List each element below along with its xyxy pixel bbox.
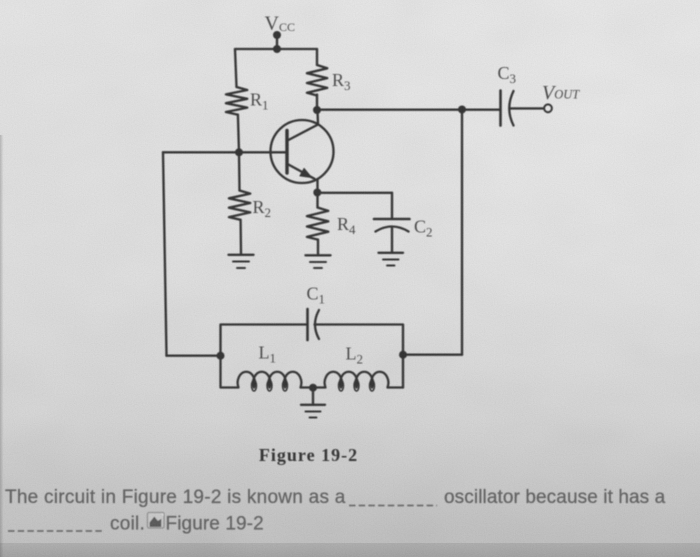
transistor Q1 base bar <box>285 131 288 174</box>
wire tank top left <box>221 325 307 356</box>
wire tank top right <box>315 325 404 355</box>
wire R2 bottom lead <box>239 220 242 255</box>
node Vcc-rail junction <box>273 45 281 53</box>
transistor Q1 emitter arrowhead <box>300 168 312 177</box>
wire tank right link <box>403 354 462 356</box>
question text line 1 <box>5 487 346 508</box>
label C2 <box>414 217 433 240</box>
wire R4 bottom lead <box>317 240 319 256</box>
caption Figure 19-2 <box>259 445 358 465</box>
wire output rail <box>317 109 500 111</box>
resistor R2 <box>229 191 250 220</box>
broken image icon <box>148 513 165 529</box>
wire R1-base lead <box>238 115 239 153</box>
wire tank right down <box>402 355 404 388</box>
Vcc label <box>265 13 295 35</box>
ground below R4 <box>306 254 331 256</box>
wire coil center ground stem <box>312 388 314 405</box>
label C1 <box>307 284 326 307</box>
node tank right junction <box>399 351 407 359</box>
capacitor C3 <box>499 91 502 126</box>
inductor L2 <box>313 372 403 388</box>
label R2 <box>253 197 272 220</box>
wire Vcc stem <box>276 35 278 49</box>
question text line 1b <box>444 487 666 508</box>
ground below coils <box>301 404 325 406</box>
capacitor C1 <box>306 309 309 340</box>
wire C2 top lead <box>391 193 393 219</box>
wire C3 to output terminal <box>510 107 544 109</box>
wire C2 bottom lead <box>391 228 393 253</box>
wire R3 top lead <box>316 49 318 65</box>
wire R1 top lead <box>235 49 237 87</box>
question text line 2b <box>166 514 264 535</box>
capacitor C2 <box>374 218 410 221</box>
wire base lead <box>163 151 287 153</box>
output terminal circle <box>544 104 552 112</box>
label R3 <box>332 70 351 93</box>
blank 2 dashed <box>8 530 104 532</box>
label R4 <box>337 214 356 237</box>
wire right outer vertical <box>461 110 463 355</box>
Vcc terminal dot <box>273 31 281 39</box>
node base junction <box>235 148 243 156</box>
wire left outer vertical <box>163 152 167 355</box>
wire tank left link <box>167 355 221 357</box>
ground below R2 <box>229 254 254 256</box>
transistor Q1 emitter stroke <box>288 164 315 179</box>
transistor Q1 collector stroke <box>288 110 319 141</box>
wire R3 bottom lead <box>316 95 318 111</box>
wire emitter to C2 <box>318 192 393 194</box>
label L2 <box>346 344 364 367</box>
node tank left junction <box>217 352 225 360</box>
resistor R1 <box>226 87 247 115</box>
ground below C2 <box>379 252 404 254</box>
question text line 2 <box>110 514 145 535</box>
wire emitter lead <box>316 179 318 193</box>
resistor R4 <box>307 208 328 240</box>
label L1 <box>259 343 277 366</box>
transistor Q1 circle <box>271 120 334 183</box>
resistor R3 <box>307 65 327 96</box>
wire top rail <box>235 48 317 50</box>
wire R4 top lead <box>316 193 318 208</box>
label VOUT <box>542 82 580 104</box>
blank 1 dashed <box>349 505 437 507</box>
node output-branch junction <box>458 106 466 114</box>
node coil center junction <box>309 384 317 392</box>
node emitter junction <box>313 189 321 197</box>
inductor L1 <box>221 356 314 388</box>
node collector junction <box>313 106 321 114</box>
label R1 <box>250 90 269 113</box>
wire R2 top lead <box>238 152 241 190</box>
label C3 <box>498 63 517 86</box>
